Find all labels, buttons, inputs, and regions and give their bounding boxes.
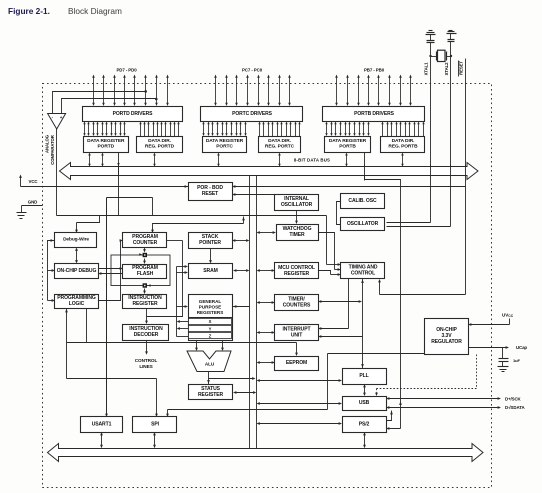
svg-text:VCC: VCC [29, 179, 39, 184]
svg-text:Figure 2-1.: Figure 2-1. [8, 6, 50, 16]
svg-text:GENERAL: GENERAL [199, 299, 222, 304]
svg-text:OSCILLATOR: OSCILLATOR [281, 202, 313, 208]
svg-text:POINTER: POINTER [199, 240, 221, 246]
svg-text:DATA REGISTER: DATA REGISTER [206, 138, 244, 144]
svg-text:PORTD DRIVERS: PORTD DRIVERS [113, 111, 154, 117]
svg-text:UCap: UCap [516, 345, 527, 350]
svg-text:1uF: 1uF [513, 358, 520, 363]
svg-text:COMPARATOR: COMPARATOR [50, 134, 55, 165]
svg-text:CONTROL: CONTROL [135, 358, 158, 363]
svg-text:PORTB DRIVERS: PORTB DRIVERS [354, 111, 395, 117]
svg-text:REGULATOR: REGULATOR [431, 339, 462, 345]
svg-text:XTAL2: XTAL2 [444, 62, 449, 75]
svg-text:REGISTER: REGISTER [133, 301, 158, 307]
svg-text:PORTC: PORTC [216, 144, 233, 150]
svg-text:USB: USB [359, 400, 370, 406]
svg-text:DECODER: DECODER [134, 332, 159, 338]
svg-text:ON-CHIP DEBUG: ON-CHIP DEBUG [57, 268, 97, 274]
svg-text:LINES: LINES [139, 364, 152, 369]
svg-text:Y: Y [209, 326, 212, 331]
svg-text:REG. PORTD: REG. PORTD [145, 144, 175, 150]
svg-text:SRAM: SRAM [203, 268, 217, 274]
svg-text:PLL: PLL [359, 373, 368, 379]
svg-text:COUNTERS: COUNTERS [283, 303, 311, 309]
svg-text:CALIB. OSC: CALIB. OSC [348, 198, 377, 204]
svg-text:FLASH: FLASH [137, 271, 154, 277]
svg-text:DATA DIR.: DATA DIR. [148, 138, 171, 144]
svg-text:PC7 - PC0: PC7 - PC0 [242, 68, 263, 73]
svg-text:OSCILLATOR: OSCILLATOR [347, 221, 379, 227]
svg-text:PD7 - PD0: PD7 - PD0 [116, 68, 137, 73]
svg-text:GND: GND [28, 200, 37, 205]
svg-text:REG. PORTB: REG. PORTB [388, 144, 418, 150]
svg-text:ANALOG: ANALOG [44, 134, 49, 153]
svg-text:COUNTER: COUNTER [133, 240, 158, 246]
svg-text:DATA DIR.: DATA DIR. [392, 138, 415, 144]
svg-text:UNIT: UNIT [291, 333, 303, 339]
svg-text:REGISTER: REGISTER [284, 271, 309, 277]
svg-text:PB7 - PB0: PB7 - PB0 [364, 68, 385, 73]
svg-text:RESET: RESET [459, 61, 464, 75]
svg-text:RESET: RESET [202, 191, 219, 197]
svg-text:TIMER: TIMER [289, 232, 305, 238]
svg-text:UVCC: UVCC [502, 313, 514, 318]
svg-text:ALU: ALU [205, 362, 215, 367]
svg-text:PORTD: PORTD [98, 144, 115, 150]
svg-text:PORTB: PORTB [339, 144, 356, 150]
svg-text:Block Diagram: Block Diagram [68, 6, 122, 16]
svg-text:EEPROM: EEPROM [286, 360, 307, 366]
svg-text:CONTROL: CONTROL [351, 271, 375, 277]
svg-text:PORTC DRIVERS: PORTC DRIVERS [232, 111, 273, 117]
svg-text:PS/2: PS/2 [359, 422, 370, 428]
svg-text:REGISTERS: REGISTERS [197, 310, 224, 315]
svg-text:D-/SDATA: D-/SDATA [505, 405, 525, 410]
svg-text:USART1: USART1 [92, 422, 112, 428]
svg-text:X: X [209, 319, 212, 324]
svg-text:REG. PORTC: REG. PORTC [265, 144, 295, 150]
svg-text:DATA REGISTER: DATA REGISTER [329, 138, 367, 144]
svg-text:Debug-Wire: Debug-Wire [63, 237, 89, 243]
svg-text:DATA REGISTER: DATA REGISTER [87, 138, 125, 144]
svg-text:REGISTER: REGISTER [198, 392, 223, 398]
svg-text:XTAL1: XTAL1 [424, 62, 429, 75]
svg-text:8-BIT DATA BUS: 8-BIT DATA BUS [294, 158, 330, 163]
svg-text:D+/SCK: D+/SCK [505, 396, 522, 401]
svg-text:PURPOSE: PURPOSE [199, 305, 221, 310]
svg-text:DATA DIR.: DATA DIR. [268, 138, 291, 144]
svg-text:SPI: SPI [151, 422, 160, 428]
svg-text:LOGIC: LOGIC [69, 301, 85, 307]
